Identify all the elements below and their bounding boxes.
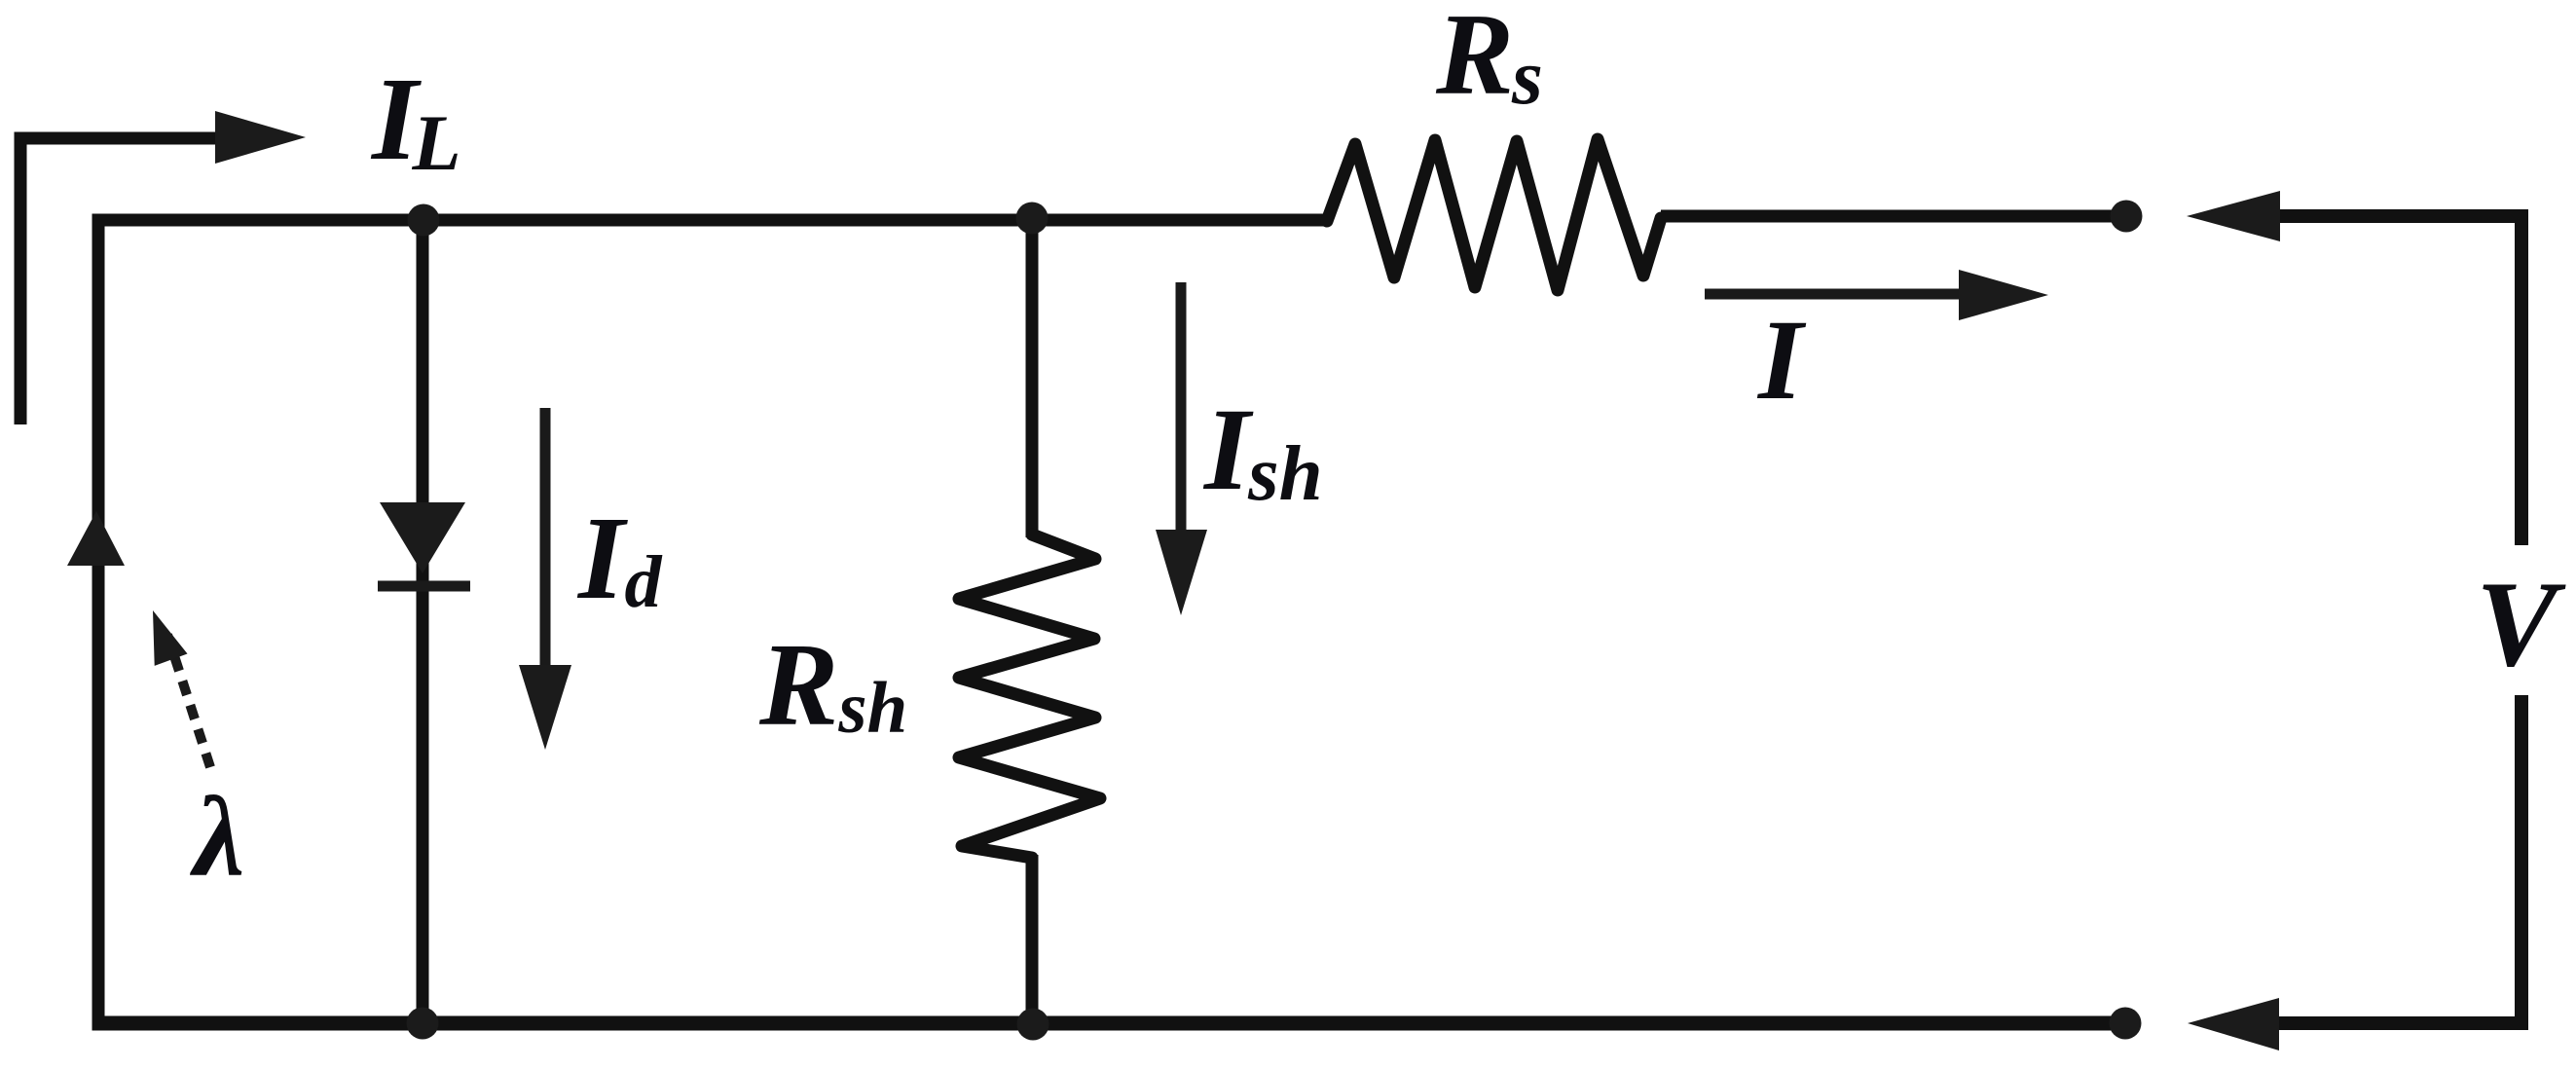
wire: top bus from Rs to output node [1661, 210, 2126, 223]
arrow Id [540, 408, 551, 670]
wire: right side bottom segment with corner [2278, 695, 2521, 1023]
node: output plus terminal [2111, 201, 2143, 233]
arrowhead: photocurrent direction up [67, 511, 125, 566]
wire: photocurrent source branch (left vertical) [92, 214, 105, 1031]
svg-text:λ: λ [189, 773, 244, 901]
resistor Rs [1327, 139, 1661, 290]
arrowhead: current at minus terminal [2188, 998, 2279, 1051]
arrow I output current [1705, 289, 1967, 300]
node: Rsh junction bottom [1017, 1009, 1049, 1041]
resistor Rsh [959, 534, 1100, 858]
svg-text:V: V [2476, 557, 2566, 692]
svg-text:Rs: Rs [1435, 0, 1543, 121]
wire: right side top segment with corner [2276, 216, 2521, 545]
wire: Rsh branch top [1026, 214, 1039, 538]
svg-text:Rsh: Rsh [758, 619, 907, 751]
node: Rsh junction top [1016, 203, 1049, 235]
arrowhead: current into plus terminal [2187, 191, 2280, 241]
diode D [380, 502, 465, 573]
node: output minus terminal [2110, 1008, 2142, 1040]
arrow Ish [1176, 282, 1187, 534]
svg-text:Id: Id [576, 493, 662, 624]
node: diode junction top [408, 204, 440, 237]
svg-text:I: I [1756, 296, 1807, 424]
arrow IL current direction (top-left bent arrow) [20, 138, 226, 424]
node: diode junction bottom [407, 1008, 439, 1040]
arrow lambda illumination (dashed) [167, 635, 210, 767]
wire: top bus from left corner to Rs [92, 214, 1328, 227]
wire: Rsh branch bottom [1026, 855, 1039, 1030]
svg-text:Ish: Ish [1202, 385, 1323, 517]
svg-text:IL: IL [370, 54, 461, 187]
wire: bottom bus [92, 1016, 2126, 1031]
wire: diode branch vertical [417, 214, 429, 1031]
